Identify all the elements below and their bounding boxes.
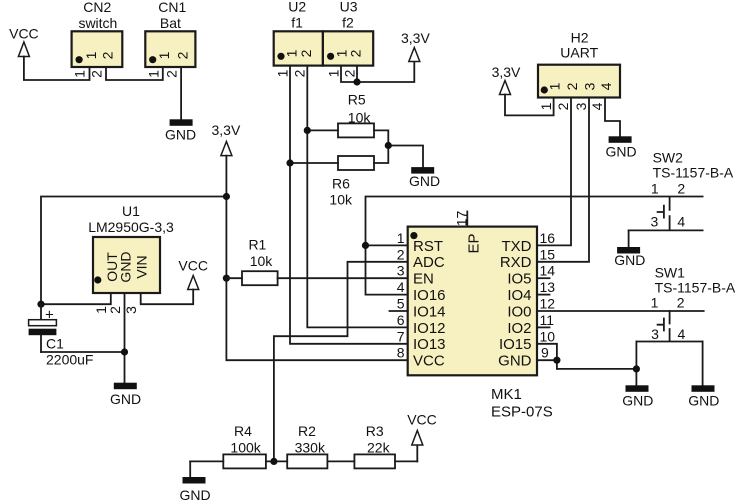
svg-text:GND: GND: [409, 173, 440, 189]
svg-text:330k: 330k: [295, 440, 326, 456]
svg-text:U2: U2: [288, 0, 306, 15]
wire R5 left to U2 pin 2: [307, 129, 338, 131]
svg-text:MK1: MK1: [491, 386, 522, 403]
svg-text:U3: U3: [340, 0, 358, 15]
svg-text:R1: R1: [248, 237, 266, 253]
power flag 3,3V (middle): [211, 122, 240, 156]
node U3 3,3V junction: [353, 78, 360, 85]
svg-text:3,3V: 3,3V: [211, 122, 240, 138]
svg-text:R6: R6: [332, 176, 350, 192]
svg-text:7: 7: [397, 328, 405, 344]
svg-text:17: 17: [453, 211, 469, 227]
wire R5 right / R6 right to ground: [374, 130, 423, 167]
svg-text:10k: 10k: [329, 192, 353, 208]
CN2 pin numbers: [72, 70, 105, 78]
svg-text:UART: UART: [560, 45, 598, 61]
svg-text:C1: C1: [46, 336, 64, 352]
ground (below SW1 pin 3): [622, 385, 653, 408]
svg-text:GND: GND: [165, 127, 196, 143]
svg-text:EN: EN: [413, 271, 434, 288]
svg-text:EP: EP: [466, 233, 483, 253]
IC MK1 ESP-07S: [408, 227, 553, 421]
switch SW1 TS-1157-B-A: [636, 265, 736, 343]
node pin9/pin10 junction: [553, 357, 560, 364]
svg-text:GND: GND: [614, 252, 645, 268]
svg-text:ESP-07S: ESP-07S: [491, 404, 553, 421]
ground (below H2): [605, 136, 636, 159]
svg-text:2: 2: [100, 51, 116, 59]
svg-text:IO13: IO13: [413, 336, 446, 353]
wire U1 VIN pin 3 to VCC: [141, 290, 194, 305]
connector CN1: [145, 0, 195, 67]
svg-text:VCC: VCC: [9, 26, 39, 42]
svg-text:RXD: RXD: [500, 254, 532, 271]
power flag VCC (top left): [9, 26, 39, 57]
U2 pin numbers: [274, 69, 307, 77]
svg-text:GND: GND: [622, 393, 653, 409]
capacitor C1 2200uF: [29, 304, 94, 367]
ground (below CN1): [165, 119, 196, 142]
svg-text:GND: GND: [605, 144, 636, 160]
svg-text:VCC: VCC: [178, 258, 208, 274]
svg-text:2: 2: [88, 70, 104, 78]
svg-text:GND: GND: [118, 251, 134, 282]
svg-text:SW1: SW1: [655, 265, 686, 281]
svg-text:RST: RST: [413, 238, 443, 255]
svg-text:3,3V: 3,3V: [492, 64, 521, 80]
wire RST/IO16 to SW2: [366, 197, 703, 295]
connector U3 f2: [323, 0, 373, 66]
resistor R5: [338, 92, 374, 138]
svg-text:VCC: VCC: [413, 353, 445, 370]
svg-text:switch: switch: [78, 15, 117, 31]
svg-text:4: 4: [677, 213, 685, 229]
svg-text:11: 11: [540, 312, 555, 328]
power flag VCC (at U1 VIN): [178, 258, 208, 290]
svg-text:2: 2: [298, 49, 314, 57]
svg-text:Bat: Bat: [160, 15, 181, 31]
svg-text:IO2: IO2: [507, 320, 531, 337]
svg-text:U1: U1: [122, 203, 140, 219]
svg-text:10k: 10k: [250, 253, 274, 269]
svg-text:1: 1: [72, 70, 88, 78]
svg-text:f2: f2: [342, 15, 354, 31]
svg-text:4: 4: [598, 82, 614, 90]
power flag VCC (right of R3): [407, 412, 437, 446]
node R5/R6 right junction: [385, 142, 392, 149]
svg-text:IO12: IO12: [413, 320, 446, 337]
wire SW1 pin 4 to ground: [702, 342, 704, 386]
svg-text:14: 14: [540, 263, 556, 279]
svg-text:TS-1157-B-A: TS-1157-B-A: [655, 280, 736, 296]
node U1 OUT / C1 junction: [37, 301, 44, 308]
svg-text:TXD: TXD: [502, 238, 532, 255]
U3 pin numbers: [325, 69, 357, 77]
H2 pin numbers: [538, 102, 605, 110]
svg-text:1: 1: [145, 70, 161, 78]
CN1 pin numbers: [145, 70, 179, 78]
svg-text:2: 2: [677, 295, 685, 311]
wire H2 pin 1 to 3,3V: [505, 95, 554, 116]
svg-text:IO14: IO14: [413, 303, 446, 320]
svg-text:GND: GND: [688, 393, 719, 409]
wire U3 pin 1 to 3,3V: [341, 62, 414, 83]
wire H2 pin 2 to MK1 TXD: [537, 98, 571, 246]
svg-text:1: 1: [83, 51, 99, 59]
MK1 pin numbers right: [540, 230, 556, 361]
MK1 pin 11 stub: [537, 326, 550, 328]
MK1 pin 5 stub: [390, 310, 408, 312]
switch SW2 TS-1157-B-A: [629, 150, 734, 231]
svg-text:IO0: IO0: [507, 303, 531, 320]
wire CN2 pin 2 to CN1 pin 1: [106, 67, 163, 80]
svg-text:IO16: IO16: [413, 287, 446, 304]
wire U2 pin 2 to MK1 IO12: [307, 66, 407, 328]
svg-text:1: 1: [156, 51, 172, 59]
svg-text:3: 3: [573, 102, 589, 110]
wire divider rail: [190, 460, 417, 462]
svg-text:1: 1: [397, 230, 405, 246]
resistor R4: [223, 423, 266, 468]
wire U3 pin 2 to 3,3V: [356, 66, 358, 82]
wire U1 GND pin 2 to ground: [124, 293, 126, 383]
svg-text:13: 13: [540, 279, 556, 295]
power flag 3,3V (at H2): [492, 64, 521, 95]
svg-text:GND: GND: [110, 391, 141, 407]
svg-text:3,3V: 3,3V: [401, 30, 430, 46]
resistor R6: [329, 156, 374, 208]
connector CN2: [72, 0, 123, 67]
svg-text:2: 2: [164, 70, 180, 78]
connector H2 UART: [538, 30, 620, 98]
svg-text:R5: R5: [348, 92, 366, 108]
connector U2 f1: [274, 0, 323, 66]
svg-text:1: 1: [274, 69, 290, 77]
resistor R1: [242, 237, 278, 286]
svg-text:GND: GND: [179, 487, 210, 503]
wire CN1 pin 2 to ground: [180, 67, 182, 119]
svg-text:6: 6: [397, 312, 405, 328]
svg-text:2: 2: [175, 51, 191, 59]
node R1 left junction: [223, 275, 230, 282]
node R6 left junction: [286, 159, 293, 166]
svg-text:1: 1: [325, 69, 341, 77]
node RST junction: [362, 242, 369, 249]
U1 pin numbers: [93, 306, 139, 314]
svg-text:9: 9: [541, 345, 549, 361]
svg-text:CN2: CN2: [83, 0, 111, 15]
svg-text:4: 4: [678, 326, 686, 342]
svg-text:10: 10: [540, 328, 556, 344]
svg-text:2: 2: [397, 246, 405, 262]
ground (below U1): [110, 383, 141, 407]
node R5 left junction: [304, 127, 311, 134]
wire C1 to U1 GND pin 2: [41, 351, 125, 353]
svg-text:H2: H2: [571, 30, 589, 46]
wire R4 left to ground: [189, 461, 191, 477]
wire MK1 GND to SW1 pin 3 ground: [557, 342, 637, 386]
svg-text:1: 1: [651, 295, 659, 311]
svg-text:SW2: SW2: [653, 150, 684, 166]
svg-text:2: 2: [348, 49, 364, 57]
node 3,3V rail junction: [223, 193, 230, 200]
svg-text:3: 3: [651, 326, 659, 342]
ground (right of R5/R6): [409, 167, 440, 189]
svg-text:R2: R2: [298, 423, 316, 439]
svg-text:IO5: IO5: [507, 271, 531, 288]
svg-text:3: 3: [582, 82, 598, 90]
wire H2 pin 3 to MK1 RXD: [537, 98, 589, 262]
wire SW2 pin 3 to ground: [628, 230, 630, 247]
wire U2 pin 1 to MK1 IO13: [290, 66, 408, 344]
svg-text:R3: R3: [366, 423, 384, 439]
svg-text:100k: 100k: [230, 440, 261, 456]
wire R6 left to U2 pin 1: [290, 162, 338, 164]
svg-text:16: 16: [540, 230, 556, 246]
svg-text:2: 2: [292, 69, 308, 77]
svg-text:12: 12: [540, 296, 556, 312]
svg-text:IO15: IO15: [499, 336, 532, 353]
svg-text:TS-1157-B-A: TS-1157-B-A: [653, 165, 734, 181]
wire R1 left: [226, 277, 242, 279]
svg-text:3: 3: [651, 213, 659, 229]
node SW1 ground junction: [633, 365, 640, 372]
svg-text:ADC: ADC: [413, 254, 445, 271]
wire U1 OUT rail to 3,3V node: [41, 197, 226, 305]
svg-text:2: 2: [677, 180, 685, 196]
svg-text:IO4: IO4: [507, 287, 531, 304]
svg-text:2: 2: [564, 82, 580, 90]
wire 3,3V rail down to MK1 VCC pin 8: [226, 156, 407, 361]
wire R3 right to VCC: [416, 446, 418, 461]
svg-text:1: 1: [547, 82, 563, 90]
svg-text:2: 2: [341, 69, 357, 77]
svg-text:GND: GND: [498, 353, 532, 370]
wire VCC to CN2 pin 1: [24, 57, 90, 81]
wire MK1 ADC to divider: [274, 262, 408, 462]
MK1 pin 14 stub: [537, 277, 550, 279]
ground (below SW1 pin 4): [688, 385, 719, 408]
svg-text:CN1: CN1: [158, 0, 186, 15]
node ADC divider junction: [270, 458, 277, 465]
svg-text:f1: f1: [291, 15, 303, 31]
svg-text:R4: R4: [234, 423, 252, 439]
svg-text:5: 5: [397, 296, 405, 312]
svg-text:VCC: VCC: [407, 412, 437, 428]
svg-text:2: 2: [555, 102, 571, 110]
svg-text:4: 4: [589, 102, 605, 110]
node C1/GND junction: [121, 348, 128, 355]
svg-text:4: 4: [397, 279, 405, 295]
svg-text:VIN: VIN: [134, 255, 150, 278]
MK1 pin 17 EP stub: [453, 211, 469, 227]
svg-text:22k: 22k: [367, 440, 391, 456]
ground (below R4): [179, 477, 210, 503]
resistor R2: [287, 423, 327, 468]
power flag 3,3V (above U3): [401, 30, 430, 62]
regulator U1 LM2950G-3,3: [88, 203, 174, 293]
svg-text:1: 1: [651, 180, 659, 196]
ground (below SW2): [614, 247, 645, 268]
MK1 pin 13 stub: [537, 294, 550, 296]
resistor R3: [354, 423, 395, 468]
svg-text:2200uF: 2200uF: [46, 352, 93, 368]
MK1 pin numbers left: [397, 230, 405, 361]
wire U1 OUT pin 1: [41, 293, 111, 304]
wire MK1 GND pin 9 / IO15 pin 10: [537, 344, 557, 369]
svg-text:15: 15: [540, 246, 556, 262]
svg-text:1: 1: [538, 102, 554, 110]
svg-text:LM2950G-3,3: LM2950G-3,3: [88, 219, 174, 235]
svg-text:3: 3: [397, 263, 405, 279]
svg-text:2: 2: [107, 306, 123, 314]
wire R1 right to MK1 EN: [278, 277, 408, 279]
wire H2 pin 4 to ground: [605, 98, 620, 137]
svg-text:8: 8: [397, 345, 405, 361]
wire MK1 IO0 to SW1: [537, 310, 704, 312]
